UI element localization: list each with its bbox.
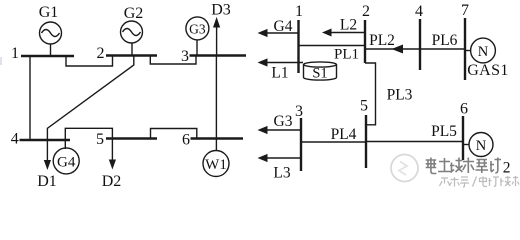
generator G1 xyxy=(39,4,62,56)
svg-text:PL1: PL1 xyxy=(334,47,359,63)
svg-text:2: 2 xyxy=(503,160,511,177)
bus 3 xyxy=(190,54,247,56)
watermark text line 1 xyxy=(426,158,501,174)
svg-text:2: 2 xyxy=(362,3,370,20)
generator G3 xyxy=(186,17,209,56)
svg-text:2: 2 xyxy=(97,45,105,62)
load L2 arrow xyxy=(322,17,365,37)
svg-text:N: N xyxy=(476,138,487,154)
svg-text:3: 3 xyxy=(181,48,189,65)
generator W1 xyxy=(203,139,229,177)
svg-text:6: 6 xyxy=(182,132,190,149)
svg-text:S1: S1 xyxy=(312,66,327,82)
edge mark xyxy=(0,57,2,65)
svg-text:L3: L3 xyxy=(273,165,290,182)
svg-text:G4: G4 xyxy=(274,18,293,35)
svg-text:5: 5 xyxy=(360,98,368,115)
bus 2 xyxy=(106,54,157,56)
bus 6 xyxy=(191,137,244,139)
svg-text:4: 4 xyxy=(11,131,19,148)
svg-text:5: 5 xyxy=(96,131,104,148)
generator N2 xyxy=(463,133,493,157)
svg-text:G4: G4 xyxy=(57,155,76,171)
svg-text:PL6: PL6 xyxy=(432,32,458,49)
svg-text:4: 4 xyxy=(415,3,423,20)
bus 1 xyxy=(21,55,74,57)
svg-text:G2: G2 xyxy=(124,5,144,22)
svg-text:G3: G3 xyxy=(189,22,206,37)
svg-text:N: N xyxy=(478,44,489,60)
generator G2 xyxy=(121,5,144,56)
bus 3 right xyxy=(300,118,302,171)
svg-text:1: 1 xyxy=(11,45,19,62)
load D3 arrow xyxy=(211,2,231,56)
bus 5 xyxy=(106,137,157,139)
line PL5 xyxy=(366,123,463,142)
bus 4 xyxy=(20,139,71,141)
load L1 arrow xyxy=(258,58,304,81)
line PL2 with arrow xyxy=(365,32,420,54)
line PL1 xyxy=(299,46,366,63)
wire bus2-bus4 diagonal xyxy=(47,56,133,141)
line PL3 xyxy=(365,63,413,125)
wire bus3-bus6 xyxy=(215,56,217,139)
storage S1 xyxy=(304,62,337,82)
svg-text:G1: G1 xyxy=(39,4,59,21)
line PL4 xyxy=(301,126,366,143)
svg-text:L2: L2 xyxy=(340,17,357,34)
load G3 arrow xyxy=(258,113,302,134)
watermark logo xyxy=(391,155,418,182)
svg-text:D2: D2 xyxy=(102,173,122,190)
svg-text:6: 6 xyxy=(460,101,468,118)
svg-text:GAS1: GAS1 xyxy=(467,62,509,79)
svg-text:PL5: PL5 xyxy=(431,123,457,140)
svg-text:W1: W1 xyxy=(205,157,227,173)
svg-text:D1: D1 xyxy=(37,173,57,190)
svg-text:D3: D3 xyxy=(211,2,231,19)
generator GAS1 xyxy=(465,38,509,79)
load D1 arrow xyxy=(37,140,57,190)
line PL6 xyxy=(420,32,465,49)
svg-text:PL3: PL3 xyxy=(387,87,413,104)
wire bus4-bus5 xyxy=(65,128,112,140)
svg-text:L1: L1 xyxy=(271,65,288,82)
wire bus1-bus2 xyxy=(66,56,113,66)
svg-text:PL4: PL4 xyxy=(331,126,357,143)
load L3 arrow xyxy=(258,154,302,182)
bus 4 right xyxy=(419,19,421,70)
svg-text:3: 3 xyxy=(295,103,303,120)
svg-text:PL2: PL2 xyxy=(369,32,395,49)
bus 6 right xyxy=(462,116,464,160)
bus 1 right xyxy=(297,20,299,73)
svg-text:1: 1 xyxy=(295,3,303,20)
svg-text:G3: G3 xyxy=(274,113,293,130)
load D2 arrow xyxy=(102,139,122,191)
wire bus1-bus4 xyxy=(29,56,31,140)
svg-text:7: 7 xyxy=(461,2,469,19)
generator G4 xyxy=(53,140,79,174)
wire bus2-bus3 xyxy=(150,56,196,65)
bus 2 right xyxy=(364,20,366,63)
load G4 arrow right xyxy=(258,18,299,37)
watermark text line 2 xyxy=(440,176,520,187)
bus 5 right xyxy=(365,115,367,168)
wire bus5-bus6 xyxy=(151,129,197,139)
bus 7 xyxy=(464,18,466,80)
